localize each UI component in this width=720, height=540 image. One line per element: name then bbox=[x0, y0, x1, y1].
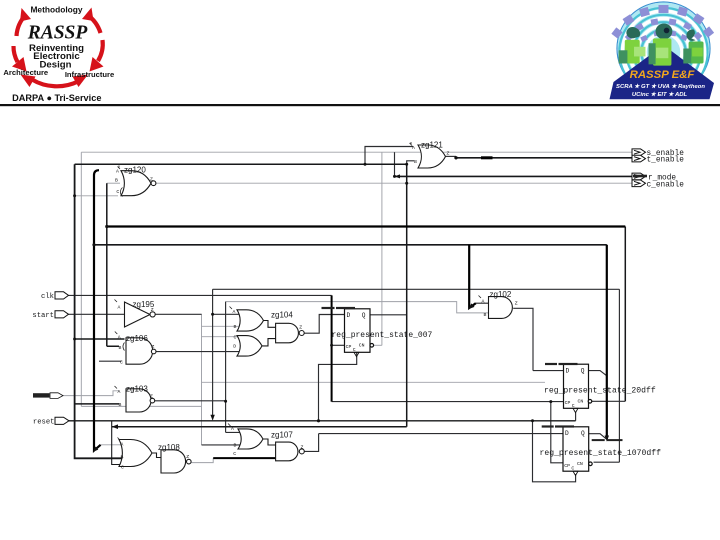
svg-text:Q: Q bbox=[581, 368, 585, 375]
flip-flop reg_present_state_1070dff bbox=[563, 427, 589, 471]
wire zg102 A stub bbox=[476, 302, 489, 304]
svg-text:Z: Z bbox=[152, 344, 155, 350]
svg-text:reset: reset bbox=[33, 419, 55, 427]
svg-text:D: D bbox=[566, 368, 570, 375]
wire zg108 A input bbox=[101, 444, 126, 446]
svg-text:clk: clk bbox=[41, 293, 54, 301]
svg-text:B: B bbox=[121, 454, 124, 460]
svg-text:B: B bbox=[119, 345, 122, 351]
svg-text:zg104: zg104 bbox=[271, 311, 293, 320]
or gate zg104 lower bbox=[237, 336, 262, 357]
net top horizontal 164 bbox=[75, 163, 407, 165]
net zg19 output bbox=[155, 313, 201, 315]
junction feedback net 245 bbox=[92, 243, 95, 246]
flip-flop reg_present_state_007 bbox=[345, 309, 371, 353]
pin tick zg107 A bbox=[228, 424, 231, 427]
navy wedge bbox=[610, 45, 715, 99]
svg-text:C: C bbox=[571, 465, 574, 471]
svg-text:B: B bbox=[234, 324, 237, 330]
flip-flop reg_present_state_20dff bbox=[564, 364, 589, 408]
output port c_enable bbox=[632, 180, 646, 187]
wire vertical x106 bbox=[107, 183, 119, 346]
svg-text:t_enable: t_enable bbox=[647, 157, 685, 165]
arrowhead x606 bottom bbox=[605, 436, 609, 442]
net clk bbox=[69, 294, 332, 296]
pins FF2 bbox=[566, 368, 585, 375]
wire zg108 output to zg107 C bbox=[191, 458, 213, 462]
junction zg120 B net at bus 226 bbox=[105, 225, 108, 228]
svg-text:CN: CN bbox=[577, 461, 583, 467]
svg-text:Q: Q bbox=[362, 312, 366, 319]
or gate zg104 upper bbox=[237, 310, 264, 331]
tiny text above FF1 bbox=[322, 307, 335, 309]
wire FF3 Q diagonal bbox=[589, 434, 607, 440]
svg-text:A: A bbox=[118, 334, 121, 340]
wire vertical x212 bbox=[212, 289, 214, 419]
wire FF2 triangle stub bbox=[575, 412, 577, 421]
svg-text:B: B bbox=[119, 402, 122, 408]
net r_mode bbox=[395, 175, 633, 177]
svg-text:A: A bbox=[118, 389, 121, 395]
svg-text:C: C bbox=[116, 189, 119, 195]
wire vertical x619 bbox=[618, 289, 620, 462]
svg-text:A: A bbox=[121, 442, 124, 448]
svg-text:A: A bbox=[482, 299, 485, 305]
svg-text:D: D bbox=[347, 312, 351, 319]
pin tick zg106 A bbox=[115, 332, 118, 335]
wire zg120 A corner thick vertical x94 bbox=[94, 170, 101, 450]
wire zg104 A input bbox=[213, 313, 240, 315]
wire vertical x74 to zg108 B bbox=[75, 164, 124, 458]
nand gate zg104 bbox=[276, 323, 305, 343]
svg-text:RASSP E&F: RASSP E&F bbox=[630, 69, 696, 81]
svg-text:zg106: zg106 bbox=[126, 334, 148, 343]
svg-text:zg120: zg120 bbox=[124, 166, 146, 175]
wire FF1 Q output bbox=[370, 314, 407, 316]
tiny text small port mode bbox=[33, 393, 50, 397]
svg-text:Z: Z bbox=[150, 176, 153, 182]
RASSP logo arrows bbox=[13, 14, 102, 86]
wire zg120 C feed bbox=[75, 195, 118, 197]
svg-text:A: A bbox=[118, 304, 121, 310]
wire clk to FF2 CP bbox=[332, 401, 564, 403]
output port r_mode bbox=[632, 173, 646, 180]
junction c_enable net bbox=[405, 182, 408, 185]
svg-text:A: A bbox=[412, 145, 415, 151]
svg-text:B: B bbox=[234, 443, 237, 449]
svg-text:A: A bbox=[231, 426, 234, 432]
net zg103 output bbox=[155, 400, 226, 402]
wire zg102 B net bbox=[226, 302, 489, 313]
net c_enable from zg120 output bbox=[156, 182, 632, 184]
wire zg107 connector bbox=[263, 439, 276, 445]
arrowhead x94 bottom bbox=[93, 447, 98, 452]
svg-text:Z: Z bbox=[151, 307, 154, 313]
and gate zg102 bbox=[489, 297, 513, 319]
svg-text:B: B bbox=[414, 159, 417, 165]
pin tick zg120 A bbox=[118, 166, 121, 170]
wire zg106 output to zg104 D bbox=[156, 351, 240, 353]
arrowhead r_mode bbox=[395, 174, 401, 178]
RASSP E&F logo bbox=[610, 2, 715, 99]
svg-text:CN: CN bbox=[578, 399, 584, 405]
svg-text:RASSP: RASSP bbox=[27, 23, 89, 44]
svg-text:A: A bbox=[116, 169, 119, 175]
wire clk thick vertical x331 bbox=[331, 295, 333, 401]
wire dash mark on t_enable bbox=[481, 156, 493, 159]
wire zg102 A thick vertical x469 bbox=[469, 245, 476, 308]
output port s_enable bbox=[632, 149, 646, 156]
svg-text:CP: CP bbox=[565, 400, 571, 406]
svg-text:Z: Z bbox=[301, 444, 304, 450]
svg-text:C: C bbox=[121, 464, 124, 470]
nand gate zg108 bbox=[161, 450, 191, 473]
pin tick zg104 A bbox=[230, 307, 233, 310]
input port small mode bbox=[50, 393, 63, 399]
wire r_mode vertical bbox=[394, 152, 396, 176]
wire zg104 B input bbox=[202, 325, 241, 327]
tiny text above FF2 bbox=[545, 363, 557, 365]
svg-text:Z: Z bbox=[186, 454, 189, 460]
svg-text:C: C bbox=[234, 335, 237, 341]
svg-text:Methodology: Methodology bbox=[30, 4, 82, 14]
wire FF1 CP branch bbox=[332, 344, 345, 346]
wire zg104 connectors bbox=[262, 321, 276, 346]
or gate zg108 input stage bbox=[119, 440, 152, 467]
svg-text:B: B bbox=[484, 312, 487, 318]
wire vertical x625 bbox=[624, 227, 626, 402]
pins FF3 bbox=[565, 430, 585, 437]
svg-text:CP: CP bbox=[346, 344, 352, 350]
wire zg107 C thick bbox=[213, 457, 275, 459]
junction zg106 A net bbox=[73, 338, 76, 341]
figures bbox=[619, 23, 704, 65]
tiny text right of FF3 Q bbox=[592, 439, 605, 441]
wire zg121 output bbox=[446, 155, 457, 157]
svg-text:c_enable: c_enable bbox=[647, 181, 685, 189]
wire thick 426 with vertical x406 bbox=[112, 164, 407, 426]
svg-text:C: C bbox=[572, 403, 575, 409]
net feedback 245 bbox=[94, 244, 607, 246]
wire long light mid bbox=[202, 381, 546, 383]
svg-text:zg103: zg103 bbox=[126, 385, 148, 394]
pin tick zg19 A bbox=[115, 300, 118, 303]
wire clk to FF3 CP bbox=[551, 402, 564, 463]
junction zg121 output net bbox=[454, 156, 457, 159]
wire FF1 bottom clock path bbox=[319, 353, 357, 421]
input port clk bbox=[55, 292, 69, 299]
svg-text:reg_present_state_1070dff: reg_present_state_1070dff bbox=[540, 449, 662, 458]
pin tick zg120 C paren bbox=[120, 188, 122, 197]
wire light frame left bbox=[80, 152, 82, 406]
junction r_mode net bbox=[393, 175, 396, 178]
pin tick zg108 A bbox=[118, 438, 121, 441]
svg-text:Z: Z bbox=[447, 151, 450, 157]
wire zg106 C input bbox=[99, 360, 122, 362]
net start bbox=[69, 313, 125, 315]
wire zg103 B input bbox=[75, 403, 119, 405]
junction net 164 at zg121 A bbox=[364, 163, 367, 166]
output port t_enable bbox=[632, 155, 646, 162]
svg-text:CN: CN bbox=[359, 343, 365, 349]
nand gate zg106 bbox=[126, 338, 156, 364]
input port reset bbox=[55, 417, 69, 424]
wire FF3 triangle path bbox=[533, 421, 576, 482]
wire small port mode bbox=[63, 391, 119, 396]
net horizontal 289 bbox=[213, 288, 620, 290]
wire vertical from zg19 output down bbox=[201, 314, 203, 445]
junction reset net at FF3 branch bbox=[531, 419, 534, 422]
svg-text:zg108: zg108 bbox=[158, 443, 180, 452]
net s_enable long light wire bbox=[81, 151, 632, 153]
svg-text:Infrastructure: Infrastructure bbox=[65, 70, 114, 79]
input port start bbox=[55, 311, 69, 318]
wire zg120 B stub bbox=[107, 182, 120, 184]
or gate zg121 bbox=[418, 145, 446, 168]
svg-text:Architecture: Architecture bbox=[3, 68, 48, 77]
net t_enable bbox=[456, 157, 632, 159]
svg-text:UCinc ★ EIT ★ ADL: UCinc ★ EIT ★ ADL bbox=[632, 91, 688, 98]
wire zg104 C input bbox=[202, 336, 241, 338]
svg-text:D: D bbox=[233, 344, 236, 350]
wire zg107 D input from 433 bbox=[202, 434, 564, 445]
pin tick zg103 A bbox=[115, 386, 118, 389]
svg-text:DARPA ● Tri-Service: DARPA ● Tri-Service bbox=[12, 93, 101, 103]
junction reset net at FF1 clock bbox=[317, 419, 320, 422]
wire zg107 output up bbox=[304, 434, 318, 452]
arrowhead x212 bottom bbox=[210, 415, 214, 421]
svg-text:C: C bbox=[120, 359, 123, 365]
wire light frame bottom bbox=[81, 405, 201, 407]
svg-text:A: A bbox=[233, 309, 236, 315]
svg-text:reg_present_state_007: reg_present_state_007 bbox=[332, 331, 433, 340]
svg-text:Z: Z bbox=[150, 393, 153, 399]
wire zg104 output to FF1 D bbox=[304, 315, 344, 334]
wire zg108 connector bbox=[152, 453, 161, 458]
wire zg108 C feed bbox=[112, 421, 121, 465]
svg-text:D: D bbox=[565, 430, 569, 437]
nand gate zg107 bbox=[276, 442, 305, 461]
wire feedback thick vertical x606 bbox=[606, 245, 608, 439]
svg-text:C: C bbox=[233, 451, 236, 457]
nor gate zg120 bbox=[121, 171, 156, 196]
junction zg120 C net bbox=[73, 194, 76, 197]
junction clk net at FF1 CP bbox=[330, 344, 333, 347]
RASSP logo text bbox=[3, 4, 114, 103]
wire FF2 Q diagonal bbox=[589, 371, 607, 376]
svg-text:B: B bbox=[115, 177, 118, 183]
wire FF2 CN right and up bbox=[592, 400, 626, 402]
tiny text at r_mode port bbox=[633, 175, 647, 178]
junction zg103 output net bbox=[224, 400, 227, 403]
svg-text:CP: CP bbox=[564, 463, 570, 469]
wire FF3 CN right bbox=[594, 461, 620, 463]
header rule bbox=[0, 104, 720, 106]
wire zg106 A input bbox=[75, 338, 125, 340]
wire zg102 output to FF2 D bbox=[513, 308, 533, 370]
tiny text above FF3 bbox=[542, 425, 554, 427]
arrowhead reset branch bbox=[112, 424, 118, 429]
pins FF1 bbox=[347, 312, 366, 319]
or gate zg107 input stage bbox=[238, 429, 263, 449]
svg-text:start: start bbox=[32, 312, 54, 320]
wire FF2 D jog bbox=[533, 370, 564, 372]
junction zg104 A net bbox=[211, 313, 214, 316]
wire FF1 CN stub bbox=[373, 344, 382, 346]
pin tick zg121 A bbox=[410, 142, 413, 146]
pin tick zg102 A bbox=[479, 296, 482, 299]
junction net 164 at zg121 B bbox=[405, 163, 408, 166]
net reset bbox=[69, 420, 576, 422]
svg-text:zg102: zg102 bbox=[490, 290, 512, 299]
svg-text:zg121: zg121 bbox=[421, 141, 443, 150]
svg-text:Q: Q bbox=[581, 430, 585, 437]
wire vertical x225 bbox=[226, 302, 241, 433]
svg-text:zg107: zg107 bbox=[271, 431, 293, 440]
junction clk net at FF2 CP bbox=[549, 400, 552, 403]
wire zg121 A feed bbox=[365, 147, 413, 165]
arrowhead x469 bottom bbox=[468, 303, 474, 309]
nand gate zg103 bbox=[126, 389, 155, 412]
pin tick zg106 B paren bbox=[123, 343, 125, 351]
wire FF1 CN up bbox=[381, 152, 383, 345]
svg-text:reg_present_state_20dff: reg_present_state_20dff bbox=[544, 386, 656, 395]
svg-text:C: C bbox=[353, 347, 356, 353]
svg-text:SCRA ★ GT ★ UVA ★ Raytheon: SCRA ★ GT ★ UVA ★ Raytheon bbox=[616, 83, 705, 90]
wire zg121 B stub bbox=[407, 161, 414, 165]
inverter zg19 bbox=[125, 302, 156, 327]
svg-text:Z: Z bbox=[515, 300, 518, 306]
svg-text:Z: Z bbox=[299, 325, 302, 331]
net top box 226 bbox=[107, 225, 626, 227]
